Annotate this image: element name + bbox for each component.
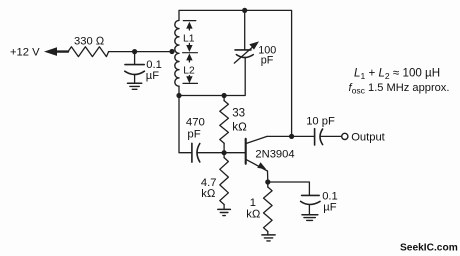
node tank bottom — [176, 93, 181, 98]
L1 dimension arrow up — [186, 22, 192, 30]
L1 dimension arrow down — [186, 44, 192, 53]
resistor R3 4.7 kohm — [220, 153, 229, 210]
transistor Q1 2N3904 — [246, 136, 268, 182]
wire base — [224, 152, 245, 154]
wire collector to C5 — [292, 135, 314, 137]
ground for C4 — [302, 215, 318, 221]
svg-text:L1: L1 — [183, 34, 195, 45]
svg-text:Output: Output — [351, 131, 385, 143]
wire variable cap top stem — [244, 10, 246, 49]
svg-text:+12 V: +12 V — [10, 47, 40, 59]
svg-text:L2: L2 — [183, 66, 195, 77]
svg-text:µF: µF — [146, 70, 159, 82]
node 33k top — [222, 93, 227, 98]
ground for R4 — [262, 235, 275, 241]
resistor R1 330 ohm — [68, 47, 109, 57]
ground for R3 — [218, 209, 231, 215]
svg-text:10 pF: 10 pF — [306, 116, 335, 128]
svg-text:33: 33 — [232, 107, 245, 120]
resistor R4 1 kohm — [264, 182, 273, 235]
ground for C1 — [128, 83, 142, 89]
svg-text:L1 + L2 ≈ 100 µH: L1 + L2 ≈ 100 µH — [354, 67, 440, 82]
svg-text:µF: µF — [323, 201, 336, 213]
capacitor C2 variable 100 pF — [234, 41, 259, 63]
L2 dimension bottom tick — [183, 82, 198, 84]
output terminal — [342, 133, 348, 139]
node top rail / variable cap — [242, 8, 247, 13]
supply arrow +12V — [44, 47, 68, 56]
svg-text:pF: pF — [187, 129, 200, 141]
wire collector to rail — [267, 135, 292, 137]
svg-text:1: 1 — [250, 197, 256, 209]
L1 dimension top tick — [183, 20, 196, 22]
svg-text:pF: pF — [261, 55, 274, 67]
capacitor C1 0.1 uF — [125, 52, 145, 84]
svg-text:330 Ω: 330 Ω — [74, 35, 105, 47]
wire tank bottom — [179, 58, 245, 96]
svg-text:fosc 1.5 MHz approx.: fosc 1.5 MHz approx. — [349, 82, 450, 96]
wire supply to tap — [109, 51, 171, 53]
capacitor C4 0.1 uF — [301, 195, 320, 214]
wire coil bottom — [178, 86, 180, 95]
L1 L2 dimension middle tick — [183, 52, 198, 54]
wire 470pF branch — [179, 96, 192, 153]
svg-text:kΩ: kΩ — [201, 188, 216, 200]
svg-text:2N3904: 2N3904 — [255, 148, 294, 160]
L2 dimension arrow up — [186, 53, 192, 62]
node emitter — [265, 179, 270, 184]
svg-text:470: 470 — [186, 117, 205, 129]
L2 dimension arrow down — [186, 76, 192, 84]
node base — [222, 150, 227, 155]
node collector — [289, 134, 294, 139]
inductor L1 L2 coil — [175, 20, 179, 86]
node coil tap — [169, 49, 174, 54]
svg-text:SeekIC.com: SeekIC.com — [400, 242, 458, 253]
svg-text:kΩ: kΩ — [232, 121, 247, 134]
node supply/C1 junction — [132, 49, 137, 54]
capacitor C5 10 pF — [315, 129, 323, 145]
svg-text:kΩ: kΩ — [246, 208, 261, 220]
wire emitter to C4 — [268, 182, 310, 195]
wire 470pF to base node — [197, 152, 224, 154]
capacitor C3 470 pF — [192, 143, 200, 162]
wire top rail — [179, 10, 292, 136]
resistor R2 33 kohm — [220, 96, 229, 153]
wire C5 to output terminal — [320, 135, 341, 137]
